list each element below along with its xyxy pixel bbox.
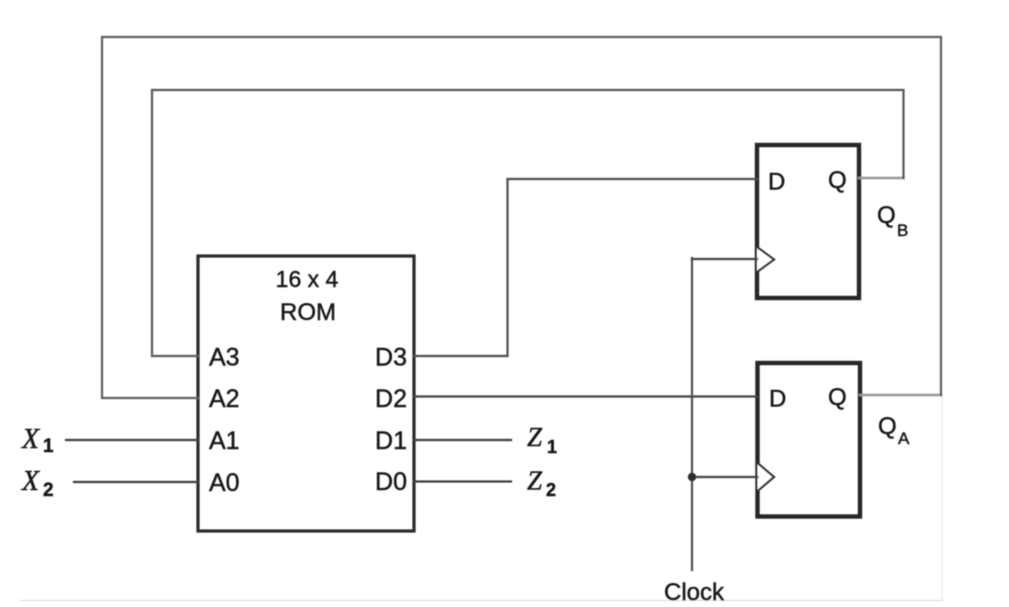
svg-text:Q: Q [828, 384, 847, 411]
svg-text:D: D [769, 386, 786, 413]
svg-text:ROM: ROM [280, 299, 336, 326]
svg-text:16 x 4: 16 x 4 [276, 266, 339, 292]
wire QA feedback to ROM A2 [102, 37, 941, 398]
svg-text:X: X [21, 466, 40, 497]
svg-text:2: 2 [546, 480, 556, 500]
svg-text:D: D [768, 169, 785, 196]
wire clock branch to U3 [692, 476, 758, 478]
svg-text:Z: Z [527, 466, 543, 496]
input label X2 [21, 466, 54, 501]
output label Z1 [527, 422, 557, 457]
svg-text:D1: D1 [375, 427, 407, 455]
wire QA output stub [860, 394, 941, 396]
wire X2 input to ROM A0 [74, 481, 198, 483]
svg-text:X: X [21, 424, 40, 455]
svg-text:D2: D2 [375, 385, 407, 413]
wire clock branch to U2 [692, 258, 757, 260]
output label Z2 [527, 466, 556, 501]
input label X1 [21, 424, 54, 457]
svg-text:Q: Q [828, 167, 847, 194]
svg-text:A3: A3 [209, 344, 240, 372]
svg-text:A1: A1 [209, 427, 240, 455]
wire clock trunk [691, 258, 693, 570]
svg-text:A0: A0 [209, 469, 240, 497]
svg-text:Clock: Clock [664, 579, 725, 606]
node label QB [877, 202, 908, 240]
svg-text:Q: Q [877, 202, 896, 229]
svg-text:1: 1 [43, 436, 54, 457]
svg-text:A2: A2 [209, 385, 240, 413]
flip-flop U3 (QA) body [758, 363, 861, 517]
junction clock node [688, 473, 696, 481]
wire ROM D1 to Z1 output [414, 439, 511, 441]
svg-text:1: 1 [547, 437, 557, 457]
wire ROM D2 to U3 D input [414, 395, 757, 397]
svg-text:A: A [898, 429, 910, 448]
wire ROM D3 to U2 D input [414, 179, 757, 356]
svg-text:Q: Q [878, 413, 897, 440]
ROM U1 body [198, 256, 414, 531]
wire QB feedback to ROM A3 [152, 90, 904, 356]
svg-text:D3: D3 [375, 344, 407, 372]
wire ROM D0 to Z2 output [414, 480, 511, 482]
svg-text:Z: Z [527, 422, 543, 452]
node label QA [878, 413, 910, 448]
wire X1 input to ROM A1 [66, 439, 198, 441]
wire QB output stub [859, 177, 904, 179]
svg-text:2: 2 [43, 480, 54, 501]
svg-text:D0: D0 [375, 468, 407, 496]
svg-text:B: B [897, 221, 908, 240]
flip-flop U3 clock triangle [758, 463, 775, 491]
flip-flop U2 (QB) body [757, 145, 859, 298]
flip-flop U2 clock triangle [757, 247, 774, 272]
